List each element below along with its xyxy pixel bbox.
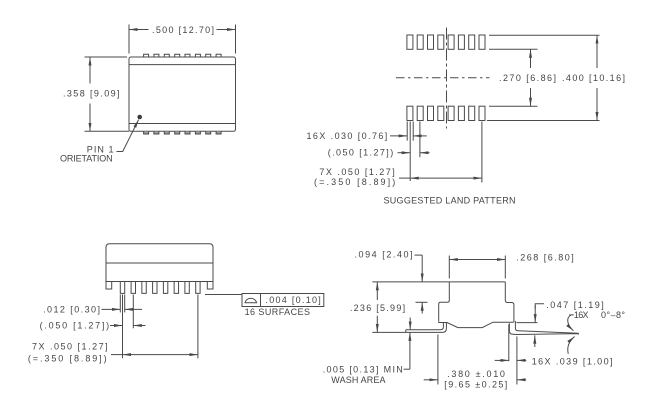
dim .380 arrow left [424,379,438,381]
pin1 right edge extension [124,295,126,313]
dim .094 leader horizontal [415,254,423,256]
svg-text:.380 ±.010: .380 ±.010 [447,369,505,379]
land pads bottom row [407,106,485,120]
dimension .400 line upper segment [596,35,598,68]
dimension .270 line upper segment [530,49,532,68]
svg-text:[9.65 ±0.25]: [9.65 ±0.25] [444,379,507,389]
angle leader lower arc [568,337,575,354]
flatness callout leader [205,294,242,296]
left corner foot [106,282,112,290]
svg-text:16X .030 [0.76]: 16X .030 [0.76] [307,131,388,141]
dim .047 leader bracket [535,304,544,309]
profile-of-surface symbol [245,298,257,302]
package body top view [129,57,236,131]
pins row [120,282,200,294]
right lead [509,321,578,335]
dim .094 upper arrow (down) [421,255,423,282]
extension line pads outer top [489,34,600,36]
dim .047 lower arrow (up) [534,335,536,347]
wash area upper arrow (down) [409,318,411,330]
svg-text:ORIETATION: ORIETATION [60,154,113,164]
dim .094 lower arrow (up) [421,302,423,313]
svg-text:(=.350 [8.89]): (=.350 [8.89]) [314,177,395,187]
svg-text:0°–8°: 0°–8° [601,310,625,320]
body mold line upper [129,64,236,66]
dim .268 line with outward arrows [449,259,505,261]
dim (.050) arrow right [133,325,145,327]
svg-text:.500 [12.70]: .500 [12.70] [152,25,214,35]
dim .047 upper arrow (down) [534,306,536,323]
pad8 center extension (long) [481,122,483,183]
pin 1 orientation dot [137,115,142,120]
svg-text:(=.350 [8.89]): (=.350 [8.89]) [28,354,107,364]
svg-text:.005 [0.13] MIN: .005 [0.13] MIN [323,365,403,375]
dimension .400 line lower segment [596,88,598,121]
dimension .500 extension line left [128,25,130,54]
dimension .500 extension line right [235,25,237,54]
dimension .358 line upper segment [89,57,91,84]
side view body [106,244,213,282]
wash area leader horizontal [404,368,410,370]
dim .236 upper segment [376,282,378,300]
right corner foot [207,282,213,290]
dim .012 arrow left [102,308,121,310]
dim (.050) arrow left [110,325,123,327]
svg-text:.358 [9.09]: .358 [9.09] [63,89,120,99]
svg-text:.400 [10.16]: .400 [10.16] [562,73,625,83]
pad1 left edge extension [406,122,408,141]
wash area lower arrow (up) [409,332,411,369]
dimension .358 line lower segment [89,104,91,132]
dim .268 extension right [504,256,506,279]
svg-text:7X .050 [1.27]: 7X .050 [1.27] [32,342,108,352]
land pads top row [407,35,485,49]
lead outer edge extension (long) [516,337,518,385]
flatness callout frame [242,294,324,307]
pad1 center extension (long) [409,122,411,182]
body bottom extension right [517,322,538,324]
dimension .500 line right segment [217,29,236,31]
pin 1 leader line [117,120,139,152]
dim .039 arrow right [517,359,526,361]
svg-text:.012 [0.30]: .012 [0.30] [43,305,100,315]
dim 16X .030 arrow left [390,135,407,137]
svg-text:.094 [2.40]: .094 [2.40] [355,250,413,260]
pin1 left edge extension [119,295,121,313]
pin2 center extension [132,295,134,329]
dim (.050) arrow left [398,152,411,154]
extension line pads inner bottom [489,105,538,107]
body top extension line (left) [372,281,449,283]
vertical centerline [446,28,448,129]
dim .236 lower segment [376,316,378,333]
horizontal centerline [396,77,490,79]
pin bumps bottom edge [144,131,222,134]
svg-text:SUGGESTED LAND PATTERN: SUGGESTED LAND PATTERN [384,196,516,206]
pin bumps top edge [144,54,222,57]
dim .380 extension left [437,335,439,385]
dimension .270 line lower segment [530,88,532,106]
svg-text:16X: 16X [574,310,589,320]
pin1 center extension (long) [122,295,124,359]
svg-text:7X .050 [1.27]: 7X .050 [1.27] [319,167,394,177]
extension line pads inner top [489,48,538,50]
dim 7X .050 line with outward arrows [111,354,123,356]
svg-text:.047 [1.19]: .047 [1.19] [546,300,604,310]
flatness callout divider [260,294,262,307]
dimension .500 line left segment [129,29,149,31]
svg-text:16X .039 [1.00]: 16X .039 [1.00] [532,357,613,367]
shoulder extension line [416,301,428,303]
end view body outline [439,282,514,328]
body parting line [106,262,213,264]
dim .012 arrow right [125,308,142,310]
svg-text:(.050 [1.27]): (.050 [1.27]) [40,321,110,331]
extension line pads outer bottom [487,120,600,122]
pad1 right edge extension [412,122,414,141]
svg-text:WASH AREA: WASH AREA [331,375,385,385]
label 16X 0-8 deg [569,314,574,316]
dim (.050) arrow right [420,152,430,154]
dim .380 arrow right [517,379,526,381]
body mold line lower [129,123,236,125]
svg-text:.270 [6.86]: .270 [6.86] [499,73,556,83]
dim 7X .050 line with outward arrows [399,177,410,179]
dimension .358 extension line top [85,56,128,58]
svg-text:.004 [0.10]: .004 [0.10] [265,295,320,305]
angle leader upper arc [568,315,574,331]
dim 16X .030 arrow right [413,135,427,137]
pad2 center extension [419,122,421,158]
dim .268 extension left [448,256,450,279]
svg-text:.236 [5.99]: .236 [5.99] [350,303,405,313]
dim .039 arrow left [495,359,509,361]
left lead [372,323,446,333]
dimension .358 extension line bottom [85,130,130,132]
pin8 center extension (long) [197,295,199,359]
lead inner edge extension [508,324,510,361]
svg-text:.268 [6.80]: .268 [6.80] [516,253,574,263]
svg-text:(.050 [1.27]): (.050 [1.27]) [328,148,394,158]
svg-text:16 SURFACES: 16 SURFACES [245,307,310,317]
